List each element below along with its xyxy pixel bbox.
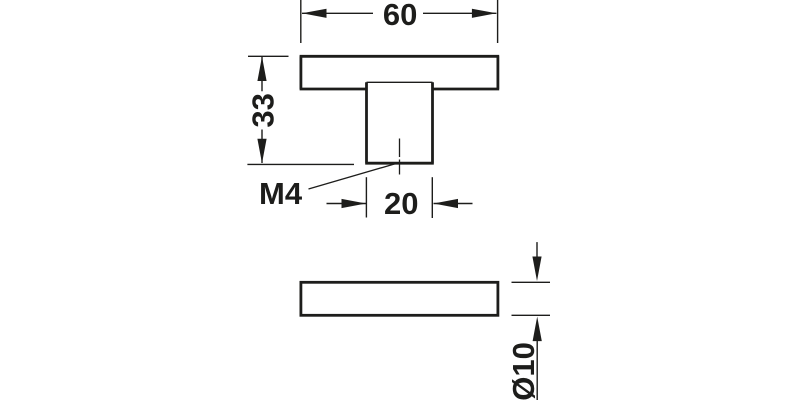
svg-text:60: 60: [383, 0, 417, 32]
dim 33 dimension line: [261, 57, 263, 163]
dim 10 dimension line lower: [536, 330, 538, 400]
dim 33 arrow down: [257, 139, 266, 164]
svg-text:M4: M4: [259, 176, 303, 211]
dim 10 dimension line upper: [536, 242, 538, 260]
dim 20 arrow left: [342, 199, 367, 208]
dim 20 extension line left: [365, 177, 367, 217]
dim 10 extension line bottom: [512, 314, 551, 316]
dim 33 extension line top: [248, 55, 289, 57]
dim 20 arrow right: [434, 199, 459, 208]
svg-text:20: 20: [384, 186, 418, 221]
leader line M4: [309, 163, 400, 190]
knob stem outline (front view): [365, 82, 434, 163]
dim 60 dimension line: [302, 12, 496, 14]
dim 33 extension line bottom: [247, 163, 354, 165]
knob side view bar outline: [301, 282, 498, 315]
dim 60 arrow left: [302, 9, 327, 18]
svg-text:Ø10: Ø10: [506, 342, 541, 400]
dim 60 extension line left: [300, 0, 302, 43]
dim 10 extension line top: [512, 281, 551, 283]
svg-text:33: 33: [245, 93, 280, 127]
dim 33 arrow up: [257, 57, 266, 82]
dim 60 arrow right: [472, 9, 497, 18]
dim 20 extension line right: [431, 177, 433, 218]
dim 10 arrow up: [533, 317, 542, 342]
stem top tangent line (thin): [367, 81, 433, 83]
dim 60 extension line right: [497, 0, 499, 43]
dim 20 dimension line left: [327, 203, 367, 205]
dim 10 arrow down: [532, 257, 541, 282]
knob top bar outline (front view): [300, 56, 500, 89]
dim 20 dimension line right: [434, 203, 473, 205]
stem centerline mark: [399, 139, 401, 175]
